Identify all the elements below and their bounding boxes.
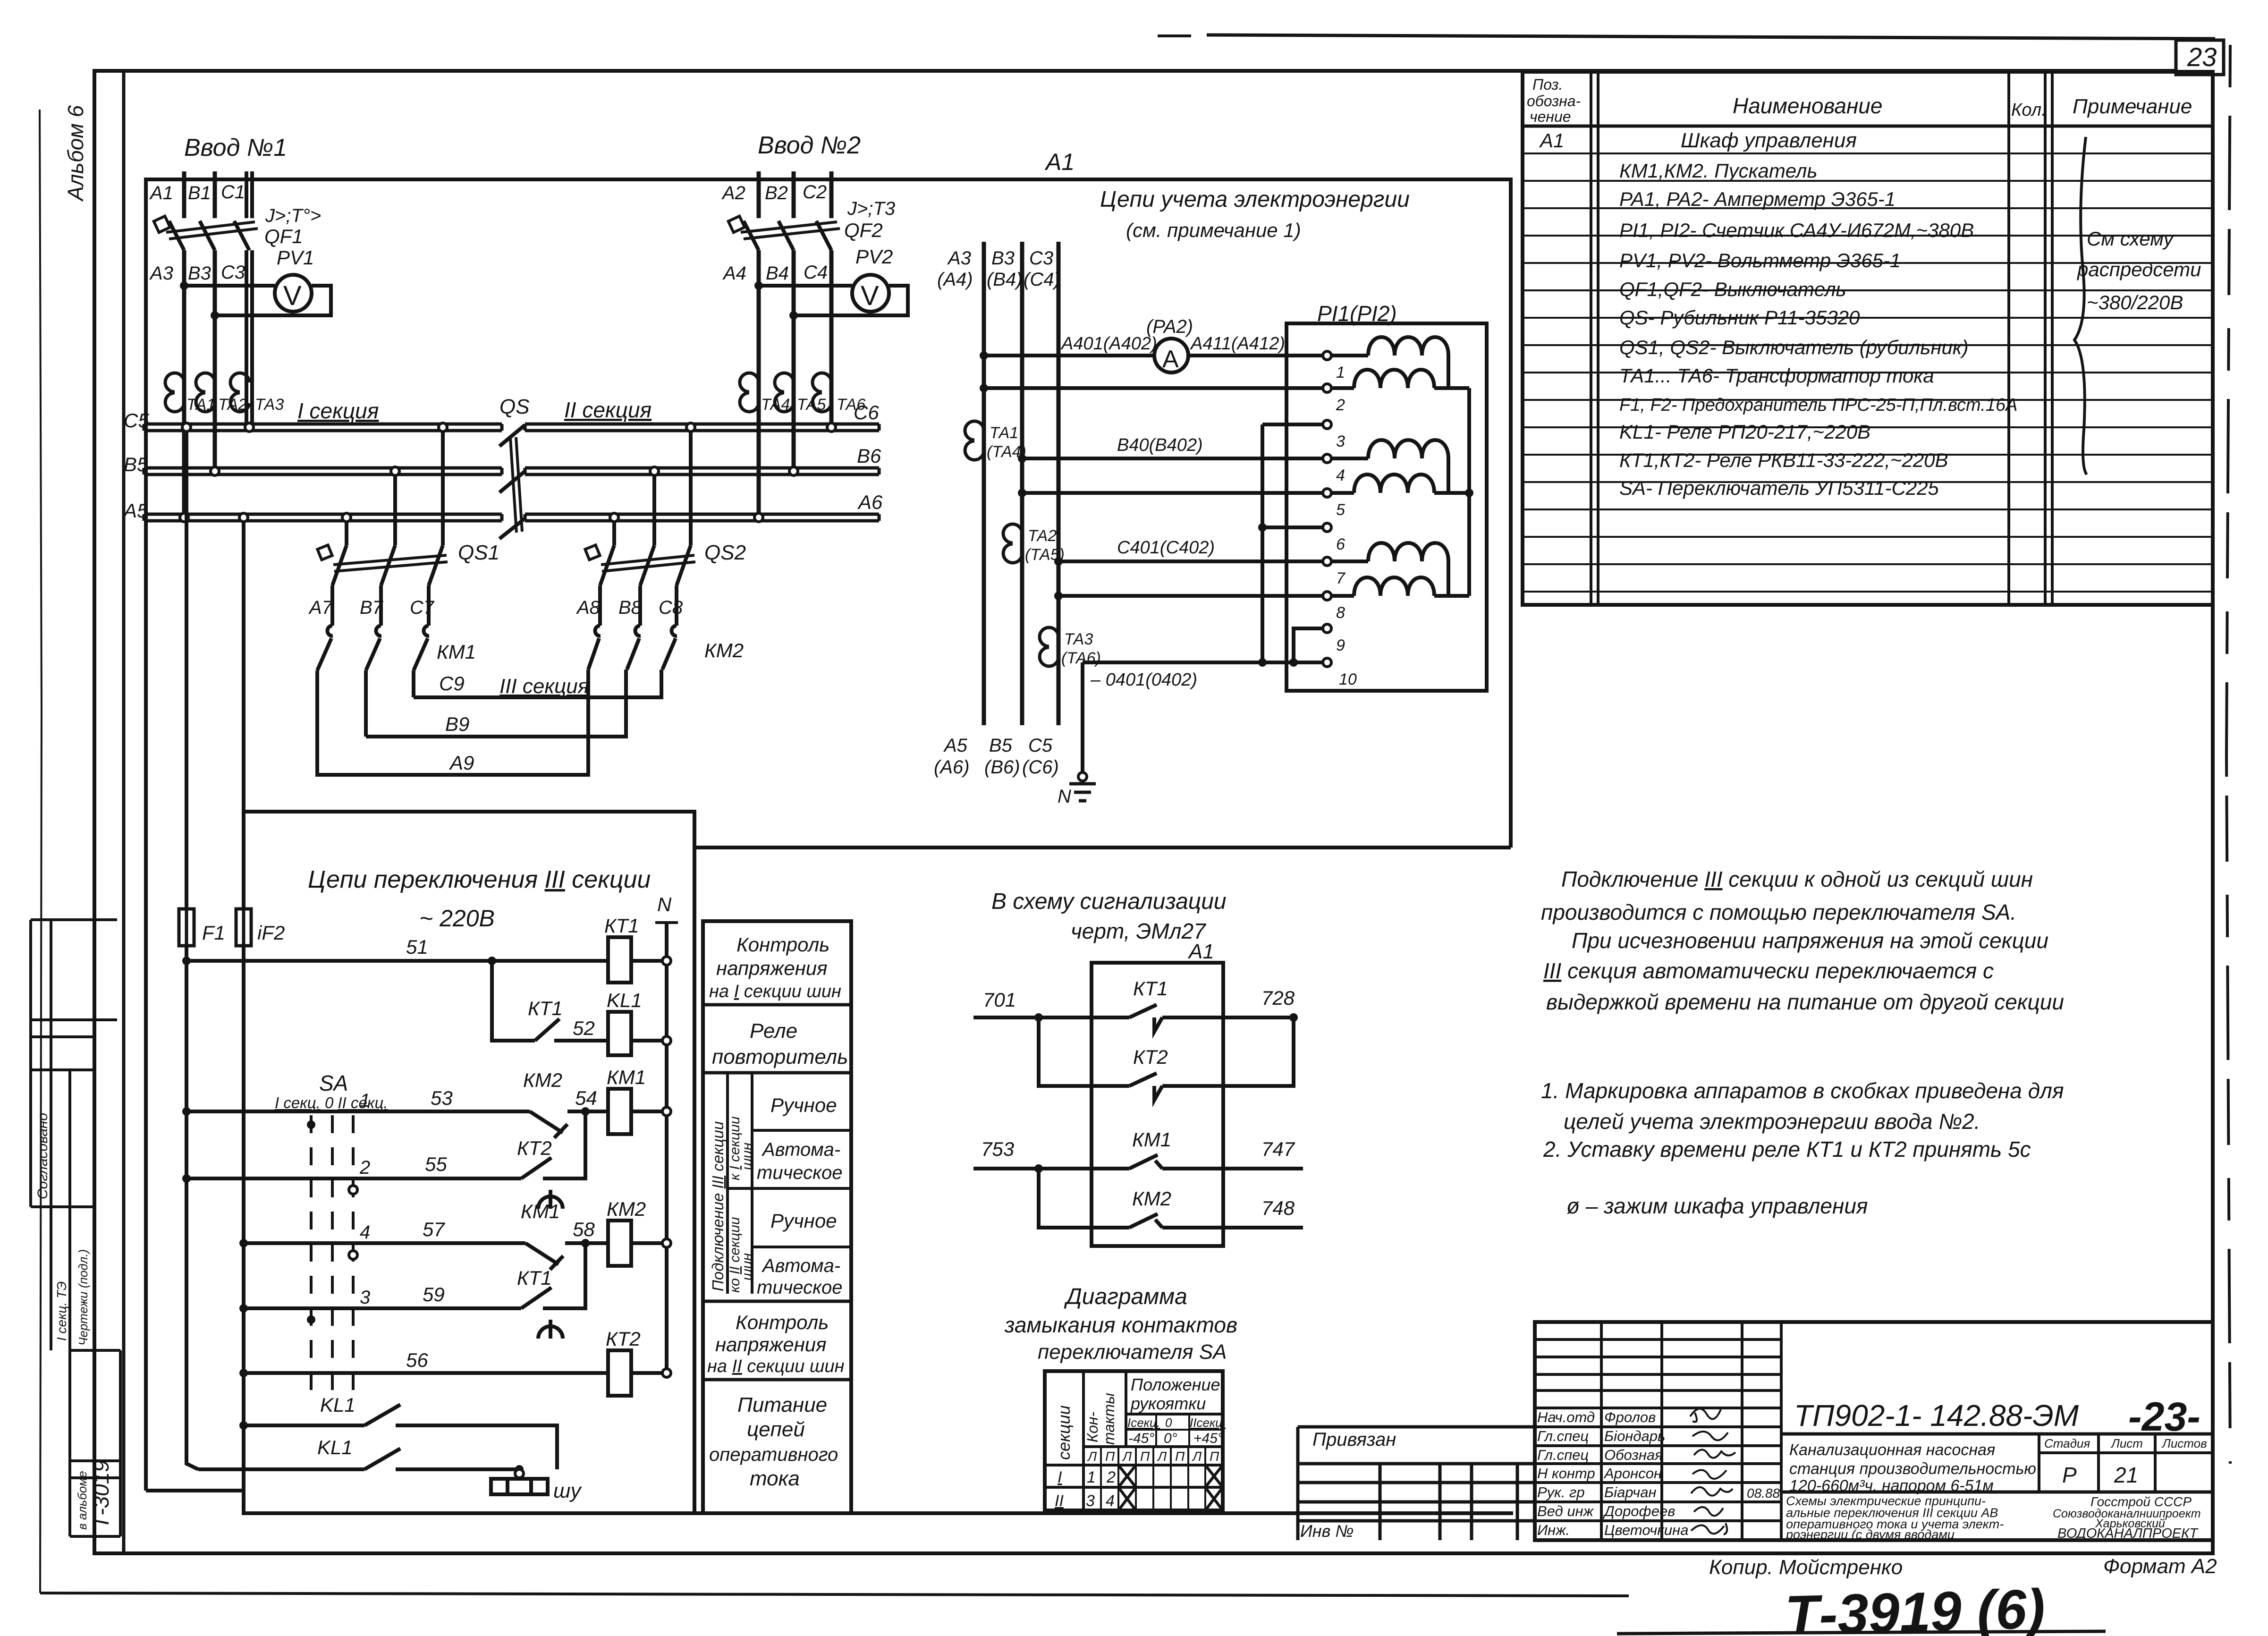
function table frame xyxy=(703,921,851,1513)
SA contact circle rung2 xyxy=(349,1186,357,1194)
svg-text:51: 51 xyxy=(406,936,428,958)
svg-text:PV1: PV1 xyxy=(277,246,314,269)
node QS1-A bus xyxy=(342,513,351,522)
node C401 xyxy=(1054,557,1063,566)
svg-text:52: 52 xyxy=(573,1017,595,1039)
svg-text:V: V xyxy=(861,280,879,311)
svg-text:КТ1: КТ1 xyxy=(1133,977,1168,1000)
svg-text:станция производительностью: станция производительностью xyxy=(1789,1460,2036,1478)
svg-text:56: 56 xyxy=(406,1349,428,1371)
svg-text:С9: С9 xyxy=(439,672,465,695)
scan edge left xyxy=(40,110,42,1593)
feeder line A2 xyxy=(757,171,761,218)
svg-text:I секц. 0 II секц.: I секц. 0 II секц. xyxy=(275,1094,388,1111)
svg-text:Iсекц.: Iсекц. xyxy=(1127,1416,1160,1430)
svg-text:(В4): (В4) xyxy=(987,269,1023,290)
node wire2 A bus xyxy=(239,513,248,522)
svg-text:23: 23 xyxy=(2187,42,2217,72)
sheet number box xyxy=(2176,40,2224,75)
стадия headers xyxy=(2044,1436,2207,1450)
svg-text:Ручное: Ручное xyxy=(770,1094,837,1116)
svg-text:ВОДОКАНАЛПРОЕКТ: ВОДОКАНАЛПРОЕКТ xyxy=(2057,1526,2199,1541)
SA contact dot rung1 xyxy=(307,1120,315,1129)
svg-text:Ввод №2: Ввод №2 xyxy=(758,132,861,159)
wire B9 jog xyxy=(624,670,628,697)
svg-text:ТА1: ТА1 xyxy=(990,424,1018,442)
switch SA dashed line R xyxy=(352,1115,355,1398)
svg-text:Реле: Реле xyxy=(750,1019,797,1043)
svg-text:ø – зажим шкафа управления: ø – зажим шкафа управления xyxy=(1566,1194,1868,1218)
svg-text:Листов: Листов xyxy=(2161,1436,2207,1450)
wire pin6 external xyxy=(1262,526,1323,529)
svg-text:10: 10 xyxy=(1339,670,1357,688)
svg-text:Бiарчан: Бiарчан xyxy=(1604,1484,1657,1500)
svg-text:С1: С1 xyxy=(221,182,245,203)
svg-text:С5: С5 xyxy=(1028,735,1053,756)
svg-text:распредсети: распредсети xyxy=(2076,258,2201,280)
svg-text:0°: 0° xyxy=(1164,1431,1177,1446)
svg-text:Положение: Положение xyxy=(1131,1375,1220,1394)
wire 0 down to ground xyxy=(1081,662,1084,784)
svg-text:SA: SA xyxy=(319,1071,348,1095)
svg-text:PV2: PV2 xyxy=(855,246,893,268)
svg-text:QS- Рубильник Р11-35320: QS- Рубильник Р11-35320 xyxy=(1619,306,1860,329)
svg-text:59: 59 xyxy=(423,1283,445,1305)
node rung51 wire1 xyxy=(182,957,191,965)
svg-text:такты: такты xyxy=(1100,1393,1117,1445)
svg-text:тическое: тическое xyxy=(757,1277,842,1298)
terminal box shu xyxy=(491,1479,548,1494)
node 728 xyxy=(1289,1013,1298,1022)
svg-text:Кол.: Кол. xyxy=(2011,100,2047,120)
svg-text:С2: С2 xyxy=(803,182,827,203)
svg-text:08.88: 08.88 xyxy=(1747,1486,1780,1500)
svg-text:QS2: QS2 xyxy=(704,541,746,564)
svg-text:оперативного: оперативного xyxy=(709,1444,838,1465)
svg-text:5: 5 xyxy=(1336,501,1345,519)
svg-text:Р: Р xyxy=(2062,1463,2077,1487)
svg-text:Л: Л xyxy=(1157,1449,1167,1464)
svg-text:Ручное: Ручное xyxy=(770,1210,837,1232)
N bus vertical xyxy=(665,923,669,1373)
node rung59 wire2 xyxy=(239,1304,248,1313)
svg-text:А5: А5 xyxy=(943,735,968,756)
contact KT2 signal xyxy=(1129,1073,1162,1100)
node B401 xyxy=(1018,454,1026,463)
svg-text:ТА2: ТА2 xyxy=(1028,527,1057,545)
wire to shu xyxy=(517,1469,521,1478)
CT TA6 xyxy=(812,373,831,412)
svg-text:Формат А2: Формат А2 xyxy=(2103,1555,2217,1578)
node feeder1 B bus xyxy=(211,467,219,475)
small table empty row lines xyxy=(1535,1339,1781,1390)
small col lines xyxy=(1101,1447,1205,1510)
svg-text:А7: А7 xyxy=(308,597,333,618)
svg-text:Гл.спец: Гл.спец xyxy=(1537,1447,1589,1463)
title block outer frame xyxy=(1535,1322,2213,1540)
svg-text:753: 753 xyxy=(981,1138,1014,1160)
svg-text:А1: А1 xyxy=(149,183,173,203)
svg-text:А: А xyxy=(1162,346,1179,373)
svg-text:на II секции шин: на II секции шин xyxy=(707,1356,845,1376)
SA diagram table frame xyxy=(1045,1371,1223,1510)
contacts row line xyxy=(1083,1445,1223,1448)
CT TA2(TA5) xyxy=(1003,524,1022,563)
node pin5 return xyxy=(1018,489,1026,497)
wire pin9 internal xyxy=(1294,628,1323,662)
node A3-PV1 xyxy=(180,281,188,290)
node feeder2 B bus xyxy=(789,467,798,475)
svg-text:PV1, PV2- Вольтметр Э365-1: PV1, PV2- Вольтметр Э365-1 xyxy=(1619,249,1901,271)
inner left frame line xyxy=(122,71,126,1553)
svg-text:QF1,QF2- Выключатель: QF1,QF2- Выключатель xyxy=(1619,278,1846,300)
node wire1 C bus xyxy=(182,423,191,432)
svg-text:Нач.отд: Нач.отд xyxy=(1537,1409,1595,1425)
svg-text:KL1: KL1 xyxy=(320,1394,355,1416)
svg-text:(С6): (С6) xyxy=(1022,757,1059,778)
node rung57 wire2 xyxy=(239,1239,248,1247)
node A4-PV2 xyxy=(754,281,763,290)
svg-text:С5: С5 xyxy=(124,409,149,432)
wire B9 xyxy=(366,697,626,737)
branch KT2 xyxy=(1039,1017,1294,1086)
svg-text:П: П xyxy=(1210,1449,1219,1464)
wire A9 jog xyxy=(586,670,590,737)
QS2 drop C8 xyxy=(689,431,693,545)
svg-text:А1: А1 xyxy=(1187,940,1214,963)
svg-text:Контроль: Контроль xyxy=(736,1311,829,1333)
svg-text:цепей: цепей xyxy=(747,1418,805,1441)
svg-text:замыкания контактов: замыкания контактов xyxy=(1004,1313,1237,1337)
relay coil KM1 xyxy=(608,1089,631,1134)
svg-text:В1: В1 xyxy=(188,183,211,203)
SA contact dot rung3 xyxy=(307,1315,315,1324)
switch SA dashed line L xyxy=(310,1115,313,1398)
CT TA1(TA4) xyxy=(965,421,984,460)
svg-text:См схему: См схему xyxy=(2087,228,2175,250)
rung 55 wire xyxy=(186,1111,585,1178)
svg-text:РI1(РI2): РI1(РI2) xyxy=(1317,301,1397,326)
project description box xyxy=(1789,1441,2036,1495)
стадия mini table xyxy=(2039,1434,2213,1492)
scan edge bottom xyxy=(40,1593,1629,1596)
svg-text:SA- Переключатель УП5311-С225: SA- Переключатель УП5311-С225 xyxy=(1619,477,1939,499)
svg-text:Согласовано: Согласовано xyxy=(35,1113,51,1199)
svg-text:QS: QS xyxy=(499,395,530,418)
svg-text:А3: А3 xyxy=(947,248,971,269)
svg-text:А9: А9 xyxy=(449,752,474,774)
wire A3 to PV1 xyxy=(184,284,275,288)
svg-text:В5: В5 xyxy=(989,735,1013,756)
svg-text:А2: А2 xyxy=(721,183,745,203)
node B3-PV1 xyxy=(211,311,219,320)
svg-text:С3: С3 xyxy=(221,262,245,283)
svg-text:напряжения: напряжения xyxy=(716,957,828,979)
relay coil KL1 xyxy=(608,1012,631,1055)
coil element 3a xyxy=(1368,543,1448,561)
node feeder2 A bus xyxy=(754,513,763,522)
wire pin8 return to C xyxy=(1058,594,1323,598)
middle box top and left edges xyxy=(694,848,1511,1513)
aux grid привязан box xyxy=(1298,1427,1535,1540)
table column double line 2 xyxy=(2051,72,2054,605)
scan artifact top line xyxy=(1207,35,2215,39)
svg-text:А6: А6 xyxy=(857,491,883,513)
svg-text:Копир. Мойстренко: Копир. Мойстренко xyxy=(1709,1556,1903,1579)
wire neutral external vertical xyxy=(1261,424,1264,662)
svg-text:3: 3 xyxy=(1086,1492,1095,1510)
svg-text:Дорофеев: Дорофеев xyxy=(1603,1503,1675,1519)
svg-text:КТ1: КТ1 xyxy=(528,997,563,1019)
svg-text:Аронсон: Аронсон xyxy=(1603,1465,1662,1482)
svg-text:1. Маркировка аппаратов в: 1. Маркировка аппаратов в скобках привед… xyxy=(1541,1078,2064,1103)
svg-text:А411(А412): А411(А412) xyxy=(1190,334,1285,354)
svg-text:iF2: iF2 xyxy=(257,922,285,944)
svg-text:выдержкой времени на питан: выдержкой времени на питание от другой с… xyxy=(1546,990,2064,1014)
svg-text:~ 220В: ~ 220В xyxy=(419,905,495,932)
bus B section I xyxy=(144,468,502,475)
voltmeter PV2 xyxy=(852,275,889,312)
svg-text:обозна-: обозна- xyxy=(1527,93,1581,110)
feeder line B1-B3 xyxy=(213,171,217,218)
svg-text:J>;T°>: J>;T°> xyxy=(265,205,321,226)
rung KL1 lower xyxy=(198,1449,519,1469)
svg-text:КТ2: КТ2 xyxy=(517,1137,552,1159)
CT TA3 xyxy=(230,373,249,412)
terminal circle shu xyxy=(515,1469,524,1478)
subheader line xyxy=(1126,1429,1223,1431)
cabinet A1 outline xyxy=(146,179,1511,1491)
line C3(C4) vertical xyxy=(1057,242,1061,725)
svg-text:Бiондарь: Бiондарь xyxy=(1604,1428,1665,1444)
svg-text:QS1, QS2- Выключатель (рубильн: QS1, QS2- Выключатель (рубильник) xyxy=(1619,336,1969,358)
node KL1 upper wire2 xyxy=(239,1421,248,1430)
wire coil3 loop xyxy=(1331,561,1469,596)
fuse F2 xyxy=(236,903,251,951)
svg-text:Н контр: Н контр xyxy=(1537,1465,1595,1482)
svg-text:(С4): (С4) xyxy=(1024,269,1060,290)
svg-text:1: 1 xyxy=(1087,1468,1096,1486)
svg-text:1: 1 xyxy=(1336,364,1345,381)
row line xyxy=(703,1003,851,1007)
breaker QF2 xyxy=(728,216,840,250)
node rung51 N xyxy=(662,957,671,965)
switch QS1 handle square xyxy=(317,545,332,559)
svg-text:производится с помощью пер: производится с помощью переключателя SA. xyxy=(1541,900,2016,924)
svg-text:(А4): (А4) xyxy=(937,269,973,290)
svg-text:QF1: QF1 xyxy=(264,225,303,247)
svg-text:В6: В6 xyxy=(857,445,881,467)
svg-text:В схему сигнализации: В схему сигнализации xyxy=(991,889,1227,914)
svg-text:III секция: III секция xyxy=(499,675,589,698)
svg-text:Инж.: Инж. xyxy=(1537,1522,1570,1538)
svg-text:напряжения: напряжения xyxy=(715,1333,827,1356)
svg-text:А1: А1 xyxy=(1044,149,1075,175)
rung 56 wire xyxy=(244,1371,667,1375)
svg-text:6: 6 xyxy=(1336,535,1345,553)
QS1 drop A7 xyxy=(345,521,348,545)
coil element 1a xyxy=(1368,337,1448,356)
node feeder1 C bus xyxy=(245,423,254,432)
svg-text:КТ1,КТ2- Реле РКВ11-33-222,~2: КТ1,КТ2- Реле РКВ11-33-222,~220В xyxy=(1619,449,1948,471)
bus C section I xyxy=(144,424,502,431)
switch SA dashed line M xyxy=(331,1115,334,1398)
svg-text:747: 747 xyxy=(1261,1138,1295,1160)
svg-text:QF2: QF2 xyxy=(844,219,883,241)
table column line Кол right xyxy=(2044,72,2047,605)
CT TA5 xyxy=(775,373,794,412)
svg-text:Стадия: Стадия xyxy=(2044,1436,2090,1450)
voltmeter PV1 xyxy=(275,275,312,312)
svg-text:шу: шу xyxy=(553,1479,583,1502)
contactor KM1 xyxy=(317,626,429,737)
svg-text:С4: С4 xyxy=(804,262,828,283)
svg-text:+45°: +45° xyxy=(1193,1431,1223,1446)
wire coil2 loop xyxy=(1331,458,1469,493)
svg-text:58: 58 xyxy=(573,1218,595,1240)
node pin2 return xyxy=(980,384,988,392)
svg-text:KL1- Реле РП20-217,~220В: KL1- Реле РП20-217,~220В xyxy=(1619,421,1870,443)
svg-text:в альбоме: в альбоме xyxy=(75,1471,89,1530)
svg-text:F1: F1 xyxy=(202,922,225,944)
fuse F1 xyxy=(179,903,194,951)
ammeter PA1 xyxy=(1154,339,1188,373)
svg-text:переключателя SA: переключателя SA xyxy=(1038,1340,1227,1364)
bus C section II xyxy=(525,424,879,431)
svg-text:53: 53 xyxy=(431,1087,453,1109)
svg-text:При исчезновении напряжени: При исчезновении напряжения на этой секц… xyxy=(1572,928,2048,953)
rung 52 branch drop xyxy=(492,961,535,1041)
svg-text:Поз.: Поз. xyxy=(1532,76,1563,93)
mid line xyxy=(728,1187,851,1190)
CT TA4 xyxy=(740,373,759,412)
svg-text:Ввод №1: Ввод №1 xyxy=(184,134,287,161)
scan artifact right dashed edge xyxy=(2226,45,2230,1464)
svg-text:на I секции шин: на I секции шин xyxy=(709,982,841,1001)
svg-text:Гл.спец: Гл.спец xyxy=(1537,1428,1589,1444)
disconnector QS blades xyxy=(499,425,525,539)
svg-text:ТА5: ТА5 xyxy=(797,396,826,414)
LP row line xyxy=(1045,1464,1223,1466)
cell line 2 xyxy=(752,1246,851,1248)
rotated col Подключение III секции xyxy=(726,1073,729,1294)
QS1 drop C7 xyxy=(441,431,445,545)
wire pin5 return to B xyxy=(1022,491,1323,495)
ground symbol xyxy=(1069,784,1096,801)
svg-text:Альбом 6: Альбом 6 xyxy=(63,105,88,202)
switch QS1 xyxy=(332,545,448,626)
bus B section II xyxy=(525,468,879,475)
feeder line B2 xyxy=(792,171,796,218)
svg-text:2: 2 xyxy=(1336,396,1345,414)
small table columns xyxy=(1601,1322,1781,1540)
svg-text:21: 21 xyxy=(2114,1463,2138,1487)
svg-text:Автома-: Автома- xyxy=(762,1139,840,1160)
svg-text:J>;T3: J>;T3 xyxy=(847,198,895,219)
svg-text:54: 54 xyxy=(575,1087,597,1109)
svg-text:1: 1 xyxy=(360,1090,370,1111)
svg-text:А1: А1 xyxy=(1539,129,1564,152)
left margin stamp grid xyxy=(31,920,120,1536)
component list table frame xyxy=(1523,72,2213,605)
branch KM2 xyxy=(1039,1169,1303,1228)
wire common tie xyxy=(1467,388,1471,596)
rung 51 wire xyxy=(186,959,667,963)
svg-text:3: 3 xyxy=(1336,432,1345,450)
supply wire 1 from C bus xyxy=(186,431,198,1469)
contact KT1 xyxy=(535,1019,608,1041)
svg-text:КТ1: КТ1 xyxy=(517,1267,552,1289)
node pin6 tie xyxy=(1258,523,1267,532)
N bus tick xyxy=(655,921,678,924)
contact KM1 NC xyxy=(525,1243,565,1270)
svg-text:шин: шин xyxy=(739,1143,755,1170)
svg-text:ТА3: ТА3 xyxy=(255,396,284,414)
svg-text:В3: В3 xyxy=(188,263,211,284)
svg-text:Т-3919 (6): Т-3919 (6) xyxy=(1784,1578,2046,1636)
svg-text:728: 728 xyxy=(1261,987,1295,1009)
coil element 3b xyxy=(1354,577,1434,596)
svg-text:II: II xyxy=(1055,1492,1064,1510)
description separator xyxy=(1781,1491,2213,1494)
terminal circle ground xyxy=(1078,772,1087,781)
svg-text:N: N xyxy=(657,893,672,915)
line C4 down to bus xyxy=(829,250,834,424)
svg-text:N: N xyxy=(1058,786,1071,807)
svg-text:С7: С7 xyxy=(410,597,435,618)
cabinet A1 bottom stub xyxy=(146,1489,244,1492)
coil element 1b xyxy=(1354,370,1434,388)
svg-text:П: П xyxy=(1175,1449,1185,1464)
line A3(A4) vertical xyxy=(982,242,986,725)
svg-text:роэнергии (с двумя вводами: роэнергии (с двумя вводами xyxy=(1786,1527,1955,1542)
svg-text:(В6): (В6) xyxy=(984,757,1020,778)
row line I xyxy=(1045,1486,1223,1489)
svg-text:чение: чение xyxy=(1530,108,1571,125)
svg-text:Канализационная насосная: Канализационная насосная xyxy=(1789,1441,1995,1459)
svg-text:Шкаф управления: Шкаф управления xyxy=(1681,129,1857,152)
rung 57 wire xyxy=(244,1241,667,1245)
feeder line C1-C3 double xyxy=(246,171,252,218)
svg-text:В4: В4 xyxy=(766,263,789,284)
svg-text:КМ2: КМ2 xyxy=(523,1069,562,1091)
svg-text:С401(С402): С401(С402) xyxy=(1117,538,1215,558)
contact KT1 signal xyxy=(1129,1005,1162,1032)
svg-text:повторитель: повторитель xyxy=(712,1045,848,1068)
contactor KM2 xyxy=(588,626,677,670)
svg-text:Чертежи (подл.): Чертежи (подл.) xyxy=(76,1249,90,1346)
SA table col контакты xyxy=(1125,1371,1127,1447)
svg-text:КМ1: КМ1 xyxy=(521,1200,560,1222)
node B4-PV2 xyxy=(789,311,798,320)
wire PV2 loop to B4 xyxy=(794,286,908,315)
rotated col к I секции шин xyxy=(751,1073,753,1294)
node rung53 junction xyxy=(581,1107,590,1116)
svg-text:тока: тока xyxy=(750,1467,800,1490)
contact KT2 delayed xyxy=(521,1158,563,1209)
svg-text:(см. примечание 1): (см. примечание 1) xyxy=(1126,219,1301,241)
table column line Кол xyxy=(2007,72,2010,605)
small table name row lines xyxy=(1535,1408,1781,1521)
svg-text:701: 701 xyxy=(983,989,1016,1011)
node 701 xyxy=(1034,1013,1043,1022)
line A3 down to bus xyxy=(182,250,186,514)
svg-text:Цепи переключения III секции: Цепи переключения III секции xyxy=(308,866,651,893)
row line 3 xyxy=(703,1300,851,1303)
meter pins 1-10 xyxy=(1323,351,1331,667)
svg-text:4: 4 xyxy=(1336,466,1345,484)
svg-text:КМ1: КМ1 xyxy=(607,1066,646,1088)
